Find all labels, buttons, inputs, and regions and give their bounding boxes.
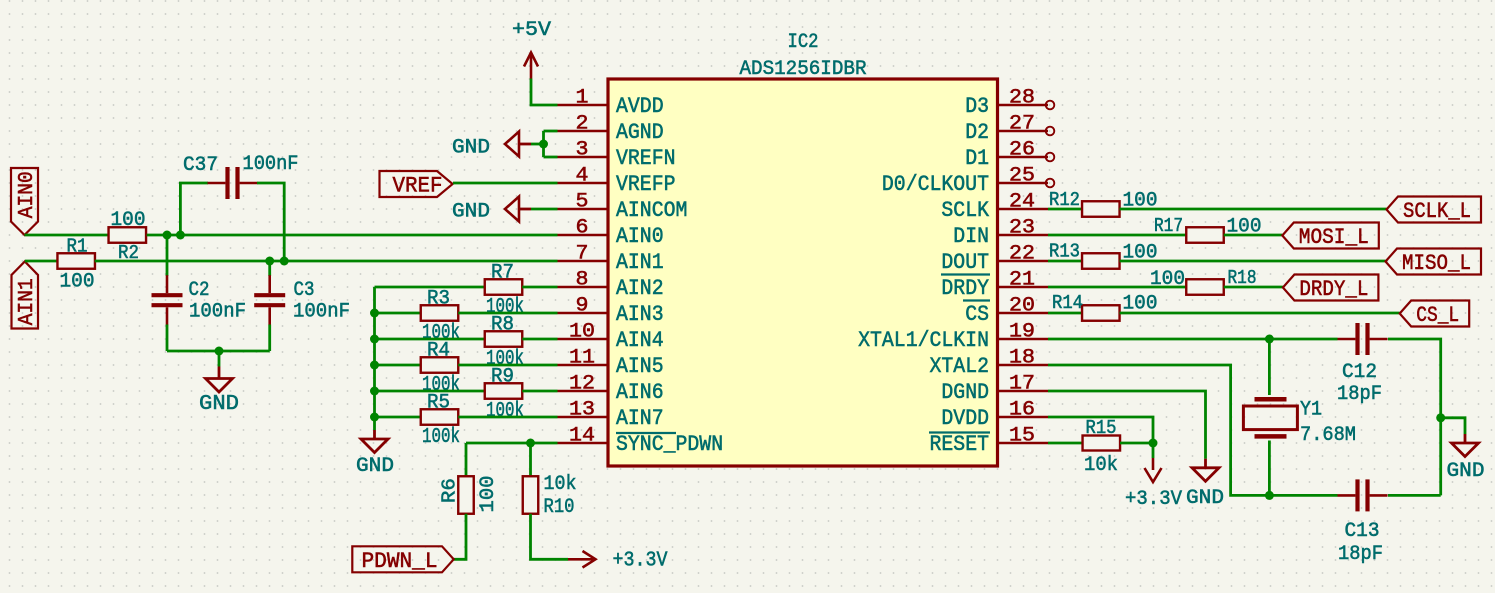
svg-text:25: 25 — [1009, 165, 1035, 188]
svg-text:R7: R7 — [491, 262, 514, 285]
wire R7 to pin 8 — [522, 286, 557, 289]
ground symbol below ladder — [361, 439, 388, 453]
svg-text:11: 11 — [569, 347, 595, 370]
svg-text:AIN1: AIN1 — [616, 250, 664, 275]
svg-text:D0/CLKOUT: D0/CLKOUT — [882, 172, 989, 197]
svg-text:R3: R3 — [427, 288, 450, 311]
label PDWN_L shape — [352, 546, 453, 572]
svg-text:AVDD: AVDD — [616, 94, 664, 119]
svg-text:2: 2 — [576, 113, 589, 136]
resistor R6 — [458, 476, 474, 514]
pin 16 stub (DVDD) — [998, 416, 1049, 419]
wire gnd symbol stub pin5 — [519, 208, 531, 211]
resistor R9 — [485, 383, 523, 399]
svg-text:15: 15 — [1009, 425, 1035, 448]
wire down to gnd — [218, 351, 221, 367]
wire gnd to pin2 AGND — [544, 130, 558, 133]
gnd stem right — [1464, 434, 1467, 443]
svg-text:4: 4 — [576, 165, 589, 188]
svg-text:19: 19 — [1009, 321, 1035, 344]
pin 11 stub (AIN5) — [558, 364, 609, 367]
svg-text:5: 5 — [576, 191, 589, 214]
svg-text:16: 16 — [1009, 399, 1035, 422]
pin 18 stub (XTAL2) — [998, 364, 1049, 367]
pin 9 stub (AIN3) — [558, 312, 609, 315]
wire pin to R17 — [1048, 234, 1186, 237]
pin 26 unconnected circle — [1046, 153, 1055, 162]
wire C2 down — [166, 325, 169, 352]
capacitor C13 — [1358, 479, 1368, 511]
svg-text:R5: R5 — [427, 392, 450, 415]
svg-text:DRDY: DRDY — [941, 276, 989, 301]
svg-text:100: 100 — [477, 476, 500, 513]
svg-text:GND: GND — [452, 201, 490, 224]
wire R9 to pin 12 — [522, 390, 557, 393]
wire gnd symbol stub pins 2-3 — [519, 143, 531, 146]
wire bus to R8 — [375, 338, 485, 341]
svg-text:D2: D2 — [965, 120, 989, 145]
pin 23 stub (DIN) — [998, 234, 1049, 237]
svg-text:22: 22 — [1009, 243, 1035, 266]
junction bus row pin 9 — [370, 309, 379, 318]
wire C13 to right vertical — [1388, 494, 1441, 497]
svg-text:C12: C12 — [1342, 361, 1377, 384]
capacitor C37 — [228, 167, 238, 199]
junction DVDD-RESET +3.3V — [1149, 439, 1158, 448]
junction bus row pin 12 — [370, 387, 379, 396]
wire pin to R12 — [1048, 208, 1082, 211]
wire AIN1 down to C3 — [268, 261, 271, 276]
wire R12 to SCLK_L — [1120, 208, 1387, 211]
svg-text:DGND: DGND — [941, 380, 989, 405]
svg-text:10: 10 — [569, 321, 595, 344]
svg-text:DVDD: DVDD — [941, 406, 989, 431]
wire C12 to right vertical — [1388, 339, 1441, 495]
pin 8 stub (AIN2) — [558, 286, 609, 289]
gnd stem — [218, 367, 221, 379]
svg-text:AIN1: AIN1 — [16, 278, 39, 325]
wire R3 to pin 9 — [458, 312, 557, 315]
pin 25 stub (D0/CLKOUT) — [998, 182, 1049, 185]
svg-text:ADS1256IDBR: ADS1256IDBR — [740, 58, 867, 81]
svg-text:14: 14 — [569, 425, 595, 448]
wire VREF to pin4 VREFP — [453, 182, 558, 185]
junction C2-C3 gnd — [215, 347, 224, 356]
wire pin to R13 — [1048, 260, 1082, 263]
overline for RESET — [929, 431, 990, 433]
wire R2 to pin6 AIN0 — [147, 234, 558, 237]
pin 12 stub (AIN6) — [558, 390, 609, 393]
wire pin19 XTAL1 to C12 — [1048, 338, 1338, 341]
junction bus row pin 11 — [370, 361, 379, 370]
svg-text:PDWN_L: PDWN_L — [362, 549, 438, 574]
pin 21 stub (DRDY) — [998, 286, 1049, 289]
svg-text:18pF: 18pF — [1337, 383, 1382, 406]
wire AIN0 up to C37 — [180, 183, 208, 235]
svg-text:VREF: VREF — [393, 174, 443, 199]
svg-text:6: 6 — [576, 217, 589, 240]
pin 20 stub (CS) — [998, 312, 1049, 315]
wire R10 to +3.3V — [531, 514, 569, 560]
svg-text:7: 7 — [576, 243, 589, 266]
pin 24 stub (SCLK) — [998, 208, 1049, 211]
ground symbol at pins 2-3 — [505, 132, 519, 157]
svg-text:SCLK: SCLK — [941, 198, 989, 223]
capacitor C2 — [152, 295, 183, 305]
svg-text:AINCOM: AINCOM — [616, 198, 687, 223]
svg-text:VREFN: VREFN — [616, 146, 676, 171]
svg-text:13: 13 — [569, 399, 595, 422]
wire R6 to PDWN_L — [454, 514, 466, 560]
wire crystal bottom stem — [1268, 441, 1271, 496]
pin 6 stub (AIN0) — [558, 234, 609, 237]
label MISO_L shape — [1386, 249, 1482, 275]
svg-text:R9: R9 — [491, 366, 514, 389]
pin 15 stub (RESET) — [998, 442, 1049, 445]
svg-text:12: 12 — [569, 373, 595, 396]
svg-text:RESET: RESET — [930, 432, 990, 457]
svg-text:+3.3V: +3.3V — [613, 550, 668, 573]
wire pin16 DVDD down — [1048, 417, 1153, 443]
svg-text:XTAL1/CLKIN: XTAL1/CLKIN — [858, 328, 989, 353]
svg-text:R12: R12 — [1049, 189, 1080, 211]
svg-text:R6: R6 — [439, 478, 461, 503]
svg-text:C3: C3 — [294, 279, 315, 302]
power symbol +3.3V right arrow — [568, 551, 596, 568]
svg-text:GND: GND — [1186, 487, 1224, 510]
label DRDY_L shape — [1283, 275, 1379, 301]
svg-text:10k: 10k — [544, 473, 577, 496]
wire bus to R7 — [375, 286, 485, 289]
resistor R7 — [485, 279, 523, 295]
wire junction down to R10 — [529, 443, 532, 476]
svg-text:GND: GND — [452, 137, 490, 160]
svg-text:23: 23 — [1009, 217, 1035, 240]
wire pin17 DGND to gnd — [1048, 391, 1206, 459]
svg-text:AIN2: AIN2 — [616, 276, 664, 301]
svg-text:DIN: DIN — [953, 224, 989, 249]
resistor R18 — [1186, 279, 1224, 295]
svg-text:20: 20 — [1009, 295, 1035, 318]
svg-text:CS_L: CS_L — [1416, 303, 1459, 328]
svg-text:18: 18 — [1009, 347, 1035, 370]
svg-text:CS: CS — [965, 302, 989, 327]
svg-text:R15: R15 — [1086, 417, 1117, 439]
resistor R14 — [1082, 305, 1120, 321]
svg-text:AIN6: AIN6 — [616, 380, 664, 405]
svg-text:IC2: IC2 — [788, 31, 819, 54]
svg-text:100nF: 100nF — [189, 301, 246, 324]
IC IC2 ADS1256IDBR body — [608, 79, 998, 466]
wire bus to R4 — [375, 364, 421, 367]
junction at GND pins 2-3 — [539, 140, 548, 149]
wire down to +3.3V symbol — [1152, 443, 1155, 458]
label VREF shape — [380, 171, 453, 197]
svg-text:R17: R17 — [1154, 215, 1183, 237]
pin 28 unconnected circle — [1046, 101, 1055, 110]
junction crystal bottom — [1265, 491, 1274, 500]
svg-text:GND: GND — [1447, 460, 1485, 483]
resistor R5 — [421, 409, 459, 425]
pin 27 unconnected circle — [1046, 127, 1055, 136]
resistor R1 — [57, 253, 94, 269]
wire R15 to junction — [1120, 442, 1153, 445]
wire C3 down — [268, 325, 271, 352]
svg-text:3: 3 — [576, 139, 589, 162]
wire C2-C3 bottom join — [167, 350, 270, 353]
pin 27 stub (D2) — [998, 130, 1049, 133]
svg-text:GND: GND — [356, 455, 394, 478]
wire pin15 RESET to R15 — [1048, 442, 1083, 445]
svg-text:100: 100 — [60, 271, 95, 294]
ground symbol right of crystal — [1452, 443, 1479, 457]
wire AIN0 label to R2 — [25, 234, 109, 237]
wire R18 to DRDY_L — [1224, 286, 1283, 289]
pin 25 unconnected circle — [1046, 179, 1055, 188]
junction AIN1-C37 — [280, 257, 289, 266]
wire AIN0 down to C2 — [166, 235, 169, 276]
svg-text:R14: R14 — [1052, 292, 1083, 314]
wire R5 to pin 13 — [458, 416, 557, 419]
pin 4 stub (VREFP) — [558, 182, 609, 185]
wire pin14 SYNC_PDWN — [466, 442, 558, 445]
hierarchical label AIN1 — [12, 262, 39, 329]
wire bus to R3 — [375, 312, 421, 315]
wire R4 to pin 11 — [458, 364, 557, 367]
svg-text:R18: R18 — [1228, 267, 1257, 289]
wire R8 to pin 10 — [522, 338, 557, 341]
pin 10 stub (AIN4) — [558, 338, 609, 341]
pin 7 stub (AIN1) — [558, 260, 609, 263]
resistor R12 — [1082, 201, 1120, 217]
junction AIN0-C2 — [163, 231, 172, 240]
resistor R8 — [485, 331, 523, 347]
svg-text:+5V: +5V — [512, 19, 551, 42]
svg-text:D3: D3 — [965, 94, 989, 119]
junction crystal top — [1265, 335, 1274, 344]
svg-text:100: 100 — [1123, 190, 1158, 213]
svg-text:R13: R13 — [1049, 241, 1080, 263]
wire bus to R5 — [375, 416, 421, 419]
svg-text:VREFP: VREFP — [616, 172, 676, 197]
resistor R17 — [1186, 227, 1224, 243]
svg-text:17: 17 — [1009, 373, 1035, 396]
svg-text:100k: 100k — [422, 426, 460, 449]
wire R17 to MOSI_L — [1224, 234, 1283, 237]
svg-text:1: 1 — [576, 87, 589, 110]
junction R10 top — [526, 439, 535, 448]
overline for SYNC of SYNC_PDWN — [616, 432, 676, 434]
svg-text:AGND: AGND — [616, 120, 664, 145]
svg-text:8: 8 — [576, 269, 589, 292]
svg-text:GND: GND — [199, 393, 239, 416]
capacitor C12 — [1358, 323, 1368, 355]
svg-text:10k: 10k — [1084, 454, 1118, 477]
label SCLK_L shape — [1387, 197, 1482, 223]
svg-text:R1: R1 — [67, 236, 88, 258]
svg-text:+3.3V: +3.3V — [1125, 488, 1182, 511]
resistor R4 — [421, 357, 459, 373]
dgnd stem — [1204, 459, 1207, 468]
svg-text:SCLK_L: SCLK_L — [1403, 199, 1471, 224]
pin 2 stub (AGND) — [558, 130, 609, 133]
svg-text:24: 24 — [1009, 191, 1035, 214]
wire gnd to pin5 AINCOM — [531, 208, 558, 211]
wire crystal top stem — [1268, 339, 1271, 395]
junction AIN0-C37 — [176, 231, 185, 240]
ground symbol DGND — [1192, 468, 1219, 482]
svg-text:100nF: 100nF — [243, 153, 299, 176]
pin 14 stub (SYNC_PDWN) — [558, 442, 609, 445]
svg-text:100: 100 — [1150, 268, 1185, 291]
svg-text:AIN4: AIN4 — [616, 328, 664, 353]
svg-text:100: 100 — [1123, 293, 1158, 316]
wire ladder bus vertical — [373, 287, 376, 430]
wire AIN1 label to R1 — [25, 260, 58, 263]
resistor R15 — [1083, 436, 1121, 451]
pin 13 stub (AIN7) — [558, 416, 609, 419]
svg-text:9: 9 — [576, 295, 589, 318]
pin 3 stub (VREFN) — [558, 156, 609, 159]
resistor R3 — [421, 305, 459, 321]
ladder gnd stem — [373, 430, 376, 439]
svg-text:DOUT: DOUT — [941, 250, 989, 275]
svg-text:AIN0: AIN0 — [16, 171, 39, 218]
pin 26 stub (D1) — [998, 156, 1049, 159]
wire bus to R9 — [375, 390, 485, 393]
crystal Y1 — [1243, 399, 1297, 436]
wire down to R6 — [465, 443, 468, 476]
svg-text:SYNC_PDWN: SYNC_PDWN — [616, 432, 723, 457]
junction AIN1-C3 — [265, 257, 274, 266]
svg-text:7.68M: 7.68M — [1300, 424, 1356, 447]
wire R14 to CS_L — [1120, 312, 1400, 315]
pin 1 stub (AVDD) — [558, 104, 609, 107]
svg-text:MISO_L: MISO_L — [1402, 251, 1471, 276]
svg-text:21: 21 — [1009, 269, 1035, 292]
junction right vertical gnd branch — [1436, 413, 1445, 422]
hierarchical label AIN0 — [11, 168, 38, 235]
svg-text:R10: R10 — [544, 496, 575, 519]
wire R1 to pin7 AIN1 — [95, 260, 558, 263]
wire R13 to MISO_L — [1120, 260, 1386, 263]
svg-text:MOSI_L: MOSI_L — [1299, 225, 1369, 250]
wire pin18 XTAL2 to C13 — [1048, 365, 1338, 495]
wire pin to R14 — [1048, 312, 1082, 315]
svg-text:C37: C37 — [183, 154, 218, 177]
svg-text:AIN0: AIN0 — [616, 224, 664, 249]
svg-text:C13: C13 — [1345, 520, 1380, 543]
svg-text:26: 26 — [1009, 139, 1035, 162]
svg-text:XTAL2: XTAL2 — [930, 354, 990, 379]
svg-text:28: 28 — [1009, 87, 1035, 110]
svg-text:AIN5: AIN5 — [616, 354, 664, 379]
svg-text:R8: R8 — [491, 314, 514, 337]
wire pin to R18 — [1048, 286, 1186, 289]
svg-text:C2: C2 — [189, 279, 210, 302]
svg-text:18pF: 18pF — [1338, 543, 1383, 566]
pin 5 stub (AINCOM) — [558, 208, 609, 211]
wire pin1 AVDD to +5V — [531, 79, 558, 106]
svg-text:27: 27 — [1009, 113, 1035, 136]
pin 22 stub (DOUT) — [998, 260, 1049, 263]
power symbol +3.3V down arrow — [1145, 458, 1162, 482]
svg-text:100k: 100k — [486, 400, 524, 423]
svg-text:AIN7: AIN7 — [616, 406, 664, 431]
svg-text:100: 100 — [111, 209, 146, 232]
wire C37 down to AIN1 — [257, 183, 284, 261]
wire gnd to pin3 VREFN — [544, 156, 558, 159]
pin 28 stub (D3) — [998, 104, 1049, 107]
ground symbol below C2-C3 — [206, 379, 233, 393]
label MOSI_L shape — [1282, 223, 1379, 249]
wire vertical joining pins 2-3 — [542, 131, 545, 157]
label CS_L shape — [1400, 301, 1470, 327]
svg-text:100: 100 — [1227, 216, 1262, 239]
junction bus row pin 13 — [370, 413, 379, 422]
svg-text:Y1: Y1 — [1300, 399, 1322, 422]
overline for DRDY — [941, 273, 990, 275]
svg-text:DRDY_L: DRDY_L — [1299, 277, 1368, 302]
svg-text:D1: D1 — [965, 146, 989, 171]
svg-text:100: 100 — [1123, 242, 1158, 265]
overline for CS — [963, 299, 990, 301]
wire branch to gnd — [1441, 418, 1465, 434]
junction bus row pin 10 — [370, 335, 379, 344]
power symbol +5V — [524, 53, 538, 79]
svg-text:AIN3: AIN3 — [616, 302, 664, 327]
resistor R2 — [109, 227, 147, 243]
svg-text:100nF: 100nF — [293, 301, 350, 324]
wire gnd stub to junction pins 2-3 — [531, 143, 544, 146]
capacitor C3 — [254, 295, 285, 305]
ground symbol at pin 5 — [505, 197, 519, 222]
pin 19 stub (XTAL1/CLKIN) — [998, 338, 1049, 341]
resistor R13 — [1082, 253, 1120, 269]
resistor R10 — [523, 476, 539, 514]
svg-text:R4: R4 — [427, 340, 450, 363]
pin 17 stub (DGND) — [998, 390, 1049, 393]
